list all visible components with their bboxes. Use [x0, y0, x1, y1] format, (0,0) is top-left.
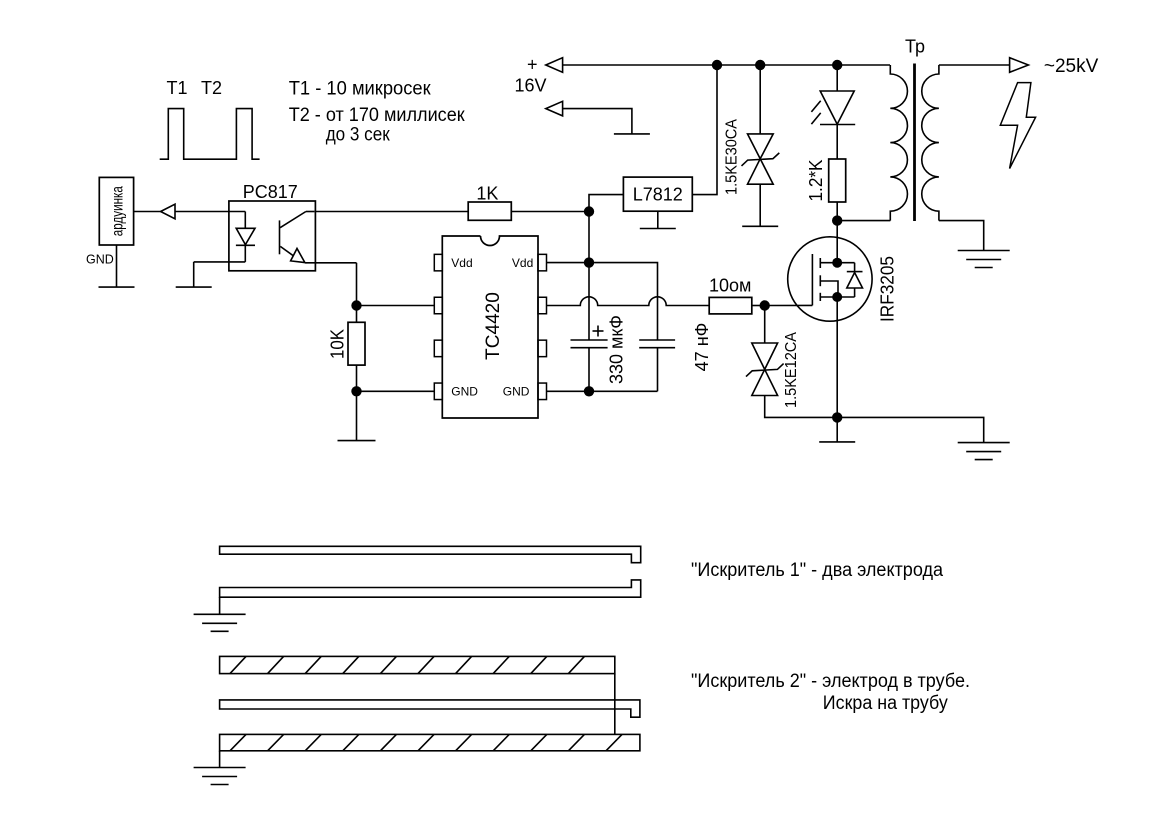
svg-text:~25kV: ~25kV — [1044, 56, 1099, 77]
svg-text:1.2*K: 1.2*K — [806, 160, 826, 202]
wire node to 10K — [356, 306, 358, 323]
wire 10ом to gate node — [752, 305, 765, 307]
svg-text:GND: GND — [86, 253, 114, 267]
junction source lead — [832, 292, 842, 302]
resistor 1K — [468, 202, 511, 220]
wire source node to right ground — [837, 417, 984, 442]
PC817 phototransistor base — [279, 220, 281, 254]
PC817 LED diode — [236, 228, 255, 245]
wire electrode to ground — [219, 597, 221, 614]
PC817 LED cathode wire — [194, 245, 246, 287]
wire Vdd riser — [588, 212, 590, 340]
svg-text:GND: GND — [503, 385, 530, 399]
PC817 LED anode wire — [244, 212, 246, 229]
svg-text:"Искритель 1" - два электрода: "Искритель 1" - два электрода — [691, 560, 943, 581]
MOSFET gate line — [811, 254, 813, 305]
junction gate node — [760, 300, 770, 310]
svg-text:Тр: Тр — [905, 37, 925, 57]
regulator L7812 box — [623, 177, 692, 211]
junction rail/LED branch — [832, 60, 842, 70]
wire pin4R gnd rail — [547, 390, 658, 392]
junction gnd rail node — [584, 386, 594, 396]
wire 47cap to gnd rail — [657, 348, 659, 392]
resistor 10ом — [709, 297, 752, 314]
wire pin2R with hops — [547, 297, 710, 306]
PC817 emitter arrow — [291, 249, 305, 263]
capacitor 47 нФ — [639, 340, 675, 348]
ground (right bottom) — [958, 443, 1010, 460]
IC TC4420 pins — [434, 254, 546, 399]
electrode in tube — [220, 700, 640, 717]
svg-text:TC4420: TC4420 — [483, 292, 504, 360]
svg-text:T1 - 10 микросек: T1 - 10 микросек — [289, 79, 432, 100]
wire source node to ground — [836, 417, 838, 442]
wire rail to LED — [836, 65, 838, 91]
ground (TVS30) — [742, 225, 778, 227]
timing pulse waveform — [160, 109, 260, 160]
svg-text:до 3 сек: до 3 сек — [326, 125, 391, 146]
ground (PC817 LED) — [176, 286, 212, 288]
svg-text:ардуинка: ардуинка — [110, 186, 127, 236]
svg-text:T2 - от 170 миллисек: T2 - от 170 миллисек — [289, 105, 466, 126]
TVS diode 1.5KE30CA — [742, 134, 780, 184]
ground (L7812) — [640, 228, 676, 230]
svg-text:IRF3205: IRF3205 — [878, 256, 898, 322]
svg-text:1.5KE30CA: 1.5KE30CA — [724, 119, 741, 195]
svg-text:GND: GND — [451, 385, 478, 399]
wire drain — [836, 221, 838, 263]
MOSFET Q1 circle — [788, 237, 872, 321]
TVS diode 1.5KE12CA — [746, 343, 784, 396]
svg-text:Vdd: Vdd — [451, 256, 472, 270]
MOSFET source lead — [820, 296, 837, 298]
junction Vdd node — [584, 257, 594, 267]
transformer core — [913, 64, 916, 222]
wire tube wall connection — [614, 674, 616, 735]
supply arrow +16V — [546, 58, 563, 73]
HV output arrow — [1010, 58, 1029, 73]
wire node to pin4 — [357, 390, 435, 392]
electrode 1 bottom bar — [220, 580, 641, 597]
transformer Tp secondary winding — [922, 65, 939, 221]
wire source down — [836, 297, 838, 417]
MOSFET mid lead — [820, 281, 838, 297]
wire secondary bottom to ground — [939, 221, 984, 251]
MOSFET channel segments — [819, 258, 821, 301]
16V rail wire — [563, 64, 890, 66]
resistor 10K — [348, 322, 365, 365]
ground (source) — [819, 441, 855, 443]
wire tube to ground — [219, 751, 221, 768]
wire pin1R to node — [547, 262, 590, 264]
resistor 1.2*K — [829, 159, 846, 202]
arduino box (ардуинка) — [99, 177, 133, 245]
ground (10K) — [338, 440, 376, 442]
junction source node — [832, 412, 842, 422]
wire arduino to arrow — [134, 211, 161, 213]
junction pin2 left — [351, 300, 361, 310]
junction pin4 left — [351, 386, 361, 396]
electrode 1 top bar — [220, 546, 641, 562]
svg-text:L7812: L7812 — [633, 185, 683, 205]
MOSFET drain lead — [820, 262, 837, 264]
wire resistor to drain node — [836, 202, 838, 221]
spark lightning bolt — [1000, 83, 1035, 169]
junction rail/TVS 1.5KE30CA — [755, 60, 765, 70]
svg-text:47 нФ: 47 нФ — [692, 323, 712, 372]
svg-text:10K: 10K — [328, 329, 348, 359]
wire LED to resistor 1.2*K — [836, 124, 838, 159]
IC TC4420 body — [442, 236, 538, 418]
wire L7812 input to 16V rail — [692, 65, 717, 195]
wire gate node to TVS12 — [764, 306, 766, 344]
junction rail/L7812 — [712, 60, 722, 70]
svg-text:330 мкФ: 330 мкФ — [607, 315, 627, 384]
ground (16V return) — [614, 133, 650, 135]
svg-text:PC817: PC817 — [243, 182, 298, 202]
wire arduino to ground — [116, 245, 118, 287]
wire node to pin2 — [357, 305, 435, 307]
wire TVS12 to source rail — [765, 396, 838, 418]
svg-text:"Искритель 2" - электрод в тру: "Искритель 2" - электрод в трубе. — [691, 671, 970, 692]
MOSFET body diode — [837, 263, 862, 297]
tube top wall (hatched) — [220, 656, 615, 673]
wire return arrow to ground — [563, 109, 632, 134]
wire PC817 collector to 1K — [314, 211, 468, 213]
PC817 emitter wire — [280, 246, 293, 256]
ground (arduino) — [99, 286, 135, 288]
junction Vdd rail node — [584, 206, 594, 216]
wire node to ground — [356, 391, 358, 440]
supply return arrow — [546, 101, 563, 116]
capacitor 330 мкФ — [571, 340, 608, 348]
transformer Tp primary winding — [890, 65, 907, 221]
wire node to L7812 output — [589, 195, 623, 212]
wire rail to TVS30 — [759, 65, 761, 134]
PC817 collector wire — [280, 212, 314, 228]
svg-text:+: + — [527, 55, 538, 75]
svg-text:16V: 16V — [515, 76, 547, 96]
ground (spark gap 1) — [194, 614, 246, 631]
signal arrow into arduino — [161, 204, 175, 219]
wire TVS30 to ground — [759, 184, 761, 226]
wire arrow to PC817 LED anode — [175, 211, 245, 213]
polarity + mark — [593, 326, 604, 337]
wire 10K to lower node — [356, 365, 358, 391]
wire 330cap to gnd rail — [588, 348, 590, 392]
wire gate node to MOSFET gate — [765, 304, 813, 306]
svg-text:Vdd: Vdd — [512, 256, 533, 270]
wire secondary to HV arrow — [939, 64, 1010, 66]
ground (secondary) — [958, 251, 1010, 268]
svg-text:T2: T2 — [201, 78, 222, 98]
svg-text:T1: T1 — [167, 78, 188, 98]
svg-text:1K: 1K — [476, 184, 498, 204]
wire drain node to transformer primary — [837, 220, 890, 222]
junction drain node — [832, 215, 842, 225]
svg-text:1.5KE12CA: 1.5KE12CA — [783, 332, 800, 408]
svg-text:Искра на трубу: Искра на трубу — [823, 693, 948, 714]
ground (spark gap 2) — [194, 768, 246, 785]
wire L7812 gnd — [657, 211, 659, 228]
LED diode — [811, 91, 855, 125]
tube bottom wall (hatched) — [220, 734, 640, 750]
optocoupler PC817 box — [229, 201, 316, 271]
wire 1K to Vdd node — [511, 211, 589, 213]
wire PC817 emitter out — [305, 263, 357, 306]
junction drain lead — [832, 258, 842, 268]
svg-text:10ом: 10ом — [709, 276, 751, 296]
wire node to 47nF top — [589, 263, 658, 340]
